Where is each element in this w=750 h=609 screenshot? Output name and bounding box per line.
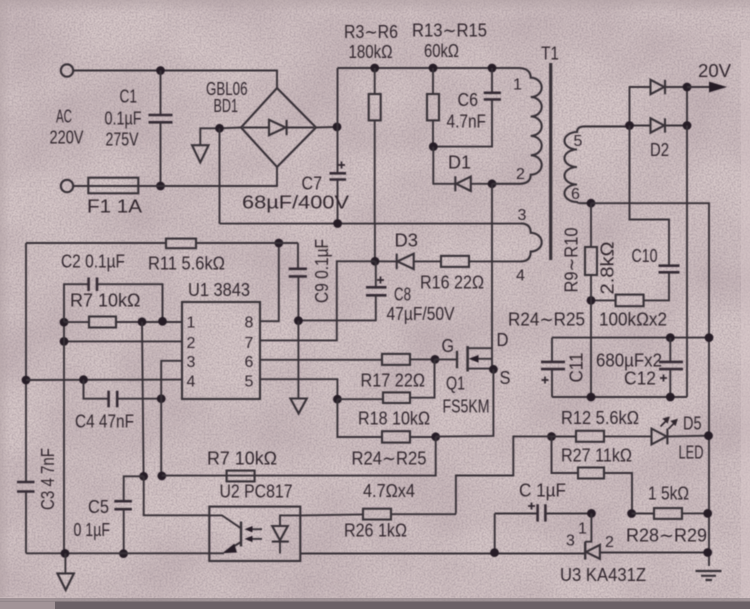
svg-text:G: G [442,336,455,356]
wire: bridge minus lead left [200,128,241,146]
svg-text:R12 5.6kΩ: R12 5.6kΩ [561,408,639,428]
node: comp node left [60,318,69,327]
svg-text:3: 3 [187,354,196,371]
resistor R24-R25 4.7Rx4 current sense [337,399,435,442]
svg-text:AC: AC [56,107,72,127]
capacitor C 1uF soft start [495,503,592,522]
svg-text:R28∼R29: R28∼R29 [626,526,707,546]
wire: primary return rail to aux winding pin3 [220,223,522,225]
svg-text:7: 7 [245,335,254,352]
svg-text:C3 4 7nF: C3 4 7nF [38,448,58,510]
node: R9-R10 on +rail [587,393,596,402]
node: feedback divider top [547,432,556,441]
wire: U1 pin3 riser down to sense line [161,361,182,476]
svg-text:4.7nF: 4.7nF [447,112,487,132]
capacitor C6 4.7nF snubber [433,68,501,147]
node: secondary pin6 [587,199,596,208]
resistor R7 10k comp [64,317,182,328]
svg-text:D: D [497,330,509,350]
node: R3-R6 top [370,64,379,73]
node: gnd line to right rail [705,333,714,342]
svg-text:D1: D1 [448,153,471,173]
ground: bottom left triangle [57,553,74,590]
svg-text:R24∼R25: R24∼R25 [352,449,427,469]
capacitor C9 0.1uF [289,243,307,321]
resistor R17 22R gate [382,354,435,365]
resistor R12 5.6k [552,431,652,442]
wire: Vref line pin8 riser [260,243,279,321]
wire: gnd stub to U1 ground arrow [297,321,299,399]
svg-text:4: 4 [187,374,196,391]
node: C7 top [333,123,342,132]
svg-text:60kΩ: 60kΩ [424,41,459,61]
diodes D2 output pair [630,80,688,133]
label: C8 value [387,285,455,325]
wire: bottom left rail [26,552,209,554]
node: R18 left / pin5 node [333,395,342,404]
node: C2 right on pin1 line [158,317,167,326]
svg-text:S: S [500,368,511,388]
node: C branch on opto line [490,548,499,557]
wire: VCC node left and down to U1 pin7 [260,261,375,340]
node: C4 stub on pin4 line [79,375,88,384]
node: R7 right / divider tap [138,317,147,326]
wire: snubber junction down to D1 [433,147,455,184]
node: LED on right rail [704,431,713,440]
node: R27 on ref line [627,509,636,518]
transformer T1 core [549,63,552,260]
svg-text:2: 2 [187,335,196,352]
capacitor C12 680uF [659,338,683,397]
svg-text:47µF/50V: 47µF/50V [387,304,455,324]
svg-text:C5: C5 [88,497,109,517]
wire: C branch down to opto line [494,514,496,553]
node: C5 on bottom rail [119,549,128,558]
capacitor C4 47nF [84,380,162,408]
ground: U1 gnd triangle [290,399,306,414]
svg-text:R9∼R10: R9∼R10 [562,228,582,293]
wire: drain-source vertical [491,184,493,369]
svg-text:T1: T1 [541,44,559,64]
node: ref node on C line [587,509,596,518]
svg-text:1: 1 [578,521,587,538]
mosfet Q1 FS5KM [457,346,492,372]
fuse F1 [88,178,138,194]
svg-text:F1 1A: F1 1A [87,197,142,217]
node: pin4 to left rail [22,376,31,385]
svg-text:R27 11kΩ: R27 11kΩ [561,446,632,466]
node: bridge minus [215,124,224,133]
node: C5 node on sense line [139,472,148,481]
wire: source down and left to sense node [436,369,494,436]
wire: U1 pin6 output to gate resistor [260,359,382,361]
node: C4 to pin3 riser [157,394,166,403]
wire: sense node down to CS line [162,437,436,476]
svg-text:680µFx2: 680µFx2 [596,351,662,371]
capacitor C10 with 100k feed [630,126,680,301]
svg-text:1 5kΩ: 1 5kΩ [648,484,689,504]
svg-text:R7 10kΩ: R7 10kΩ [70,291,141,311]
wire: 20V output arrow [687,82,727,93]
wire: bridge minus down to primary return [219,128,221,223]
svg-text:D3: D3 [395,231,419,251]
wire: U1 pin5 gnd to sense node [260,379,337,399]
svg-text:5: 5 [574,133,583,150]
svg-text:D5: D5 [683,414,702,434]
svg-text:U3 KA431Z: U3 KA431Z [560,565,646,585]
node: source node [489,365,498,374]
svg-text:68µF/400V: 68µF/400V [242,193,349,213]
svg-text:2: 2 [605,534,614,551]
svg-text:R11 5.6kΩ: R11 5.6kΩ [148,254,225,274]
svg-text:3: 3 [566,533,575,550]
wire: left rail from R11 down through C3 [25,243,27,482]
wire: U1 pin2 line [64,340,182,342]
svg-text:R17 22Ω: R17 22Ω [361,371,426,391]
svg-text:BD1: BD1 [214,96,239,116]
resistor R18 10k gate pulldown [337,359,434,403]
label: D5 LED [679,414,704,463]
optocoupler U2 PC817 [209,507,300,561]
label: R3-R6 180k [344,22,398,62]
svg-text:275V: 275V [106,130,139,150]
node: transformer pin2 / drain [488,179,497,188]
IC U1 UC3843 body [182,302,260,399]
wire: opto cathode long line to shunt [300,553,584,555]
node: C1 top junction [156,66,165,75]
resistor R24-R25 100kx2 [591,295,644,307]
svg-text:C7: C7 [302,174,323,194]
wire: opto collector feed from divider node [144,476,210,515]
label: GBL06 BD1 [206,79,248,116]
resistor R3-R6 180k startup [369,68,381,261]
wire: bridge plus to C7 column [316,126,338,129]
svg-text:U2 PC817: U2 PC817 [220,482,293,502]
wire: left feedback vertical [63,322,65,553]
node: pin2 left [60,337,69,346]
svg-text:0.1µF: 0.1µF [105,109,142,129]
node: C12 top [666,333,675,342]
svg-text:LED: LED [679,443,704,463]
svg-text:C10: C10 [632,246,658,266]
transformer T1 primary winding pins 1-2 [492,68,542,184]
resistor R13-R15 60k snubber [427,68,439,147]
wire: AC bottom line to bridge bottom vertex [74,167,277,186]
svg-text:FS5KM: FS5KM [443,397,490,417]
capacitor C1 [149,71,173,187]
node: C9/C8 ground node [294,316,303,325]
svg-text:R24∼R25: R24∼R25 [508,310,585,330]
svg-text:C6: C6 [458,90,479,110]
node: output top [683,83,692,92]
wire: divider vertical down to C5 node [142,322,144,477]
svg-text:2: 2 [516,166,525,183]
svg-text:4: 4 [516,268,525,285]
svg-text:1: 1 [187,315,196,332]
svg-text:R13∼R15: R13∼R15 [412,21,487,41]
label: Q1 FS5KM [443,374,490,417]
node: left gnd on bottom rail [61,549,70,558]
node: R11 to pin8 [274,239,283,248]
svg-text:C8: C8 [394,285,411,305]
svg-text:6: 6 [571,186,580,203]
node: shunt anode on right rail [703,548,712,557]
svg-text:R26 1kΩ: R26 1kΩ [344,521,407,541]
node: pin3 riser on sense line [157,472,166,481]
label: R13-R15 60k [412,21,487,62]
terminal: AC line input bottom [61,180,73,192]
svg-text:C12: C12 [624,369,656,389]
svg-text:R18 10kΩ: R18 10kΩ [358,409,430,429]
svg-text:1: 1 [513,77,522,94]
svg-text:C11: C11 [567,353,587,383]
diode D3 [375,254,414,270]
diode D1 [455,176,492,191]
wire: U1 pin4 line [26,379,182,381]
svg-text:C 1µF: C 1µF [519,481,566,501]
svg-text:D2: D2 [650,140,669,160]
wire: top HV rail [338,67,520,69]
label: R24-R25 100k [508,310,667,330]
capacitor C7 68uF/400V [330,68,347,224]
svg-text:5: 5 [245,374,254,391]
resistor R16 22R [414,256,469,267]
transformer T1 aux winding pins 3-4 [521,223,542,261]
resistor R11 5.6k with Vref line [26,239,298,249]
capacitor C2 0.1uF comp [64,278,163,323]
capacitor C8 47uF/50V [298,261,386,320]
node: C12 on +rail [666,393,675,402]
node: gate node [431,355,440,364]
svg-text:8: 8 [245,315,254,332]
svg-text:20V: 20V [698,61,731,81]
wire: fb zig from divider top to opto side [456,436,552,512]
bridge rectifier BD1 GBL06 [241,88,316,167]
capacitor C5 0.1uF [114,476,143,554]
ground: earth symbol bottom right [696,571,722,580]
svg-text:R3∼R6: R3∼R6 [344,22,398,42]
svg-text:180kΩ: 180kΩ [349,42,393,62]
node: snubber junction [429,142,438,151]
capacitor C3 4.7nF [17,482,35,553]
svg-text:C2 0.1µF: C2 0.1µF [61,252,125,272]
svg-text:R7 10kΩ: R7 10kΩ [207,449,277,469]
node: C7 bottom on return rail [333,219,342,228]
shunt regulator U3 KA431Z [585,513,708,559]
svg-text:4.7Ωx4: 4.7Ωx4 [363,481,415,501]
svg-text:100kΩx2: 100kΩx2 [599,310,667,330]
wire: +20V bottom rail of caps [552,396,687,398]
node: C6 top [488,64,497,73]
svg-text:3: 3 [518,207,527,224]
label: C7 value [242,174,349,213]
wire: AC top line to bridge [74,71,277,89]
svg-text:C9 0.1µF: C9 0.1µF [312,239,332,303]
svg-text:220V: 220V [50,128,84,148]
node: source sense node [431,432,440,441]
node: D2 anode bus [625,121,634,130]
svg-text:U1 3843: U1 3843 [188,280,250,300]
svg-text:0 1µF: 0 1µF [74,520,111,540]
ground: bridge negative arrow [192,145,209,162]
wire: aux pin4 lead to R16 [469,260,521,262]
svg-text:C1: C1 [120,87,138,107]
capacitor C11 680uF [541,338,565,397]
label: C5 value [74,497,111,540]
wire: output gnd line C11/C12 top [552,337,709,339]
resistor R26 1k opto feed [300,509,456,520]
resistor R27 11k [552,437,633,514]
wire: pin6 to right gnd rail [591,203,709,566]
svg-text:Q1: Q1 [446,374,465,394]
resistor R28-R29 1.5k [632,508,708,519]
node: R9-R10 bottom [587,296,596,305]
node: C1 bottom junction [156,182,165,191]
node: output lower diode [683,121,692,130]
transformer T1 secondary winding pins 5-6 [565,126,630,203]
node: R13-R15 top [429,64,438,73]
label: C6 value [447,90,487,132]
label: AC 220V [50,107,84,148]
resistor R7 10k CS filter [227,471,255,482]
label: C1 value [105,87,142,150]
terminal: AC line input top [61,64,73,76]
led D5 [652,418,709,445]
node: R28 on right rail [703,509,712,518]
wire: gate lead [435,358,456,360]
resistor R9-R10 2.8k [585,203,597,397]
svg-text:R16 22Ω: R16 22Ω [420,273,484,293]
svg-text:2.8kΩ: 2.8kΩ [598,242,618,295]
svg-text:C4 47nF: C4 47nF [75,412,134,432]
node: VCC aux node [371,257,380,266]
wire: +20V rail down right side [686,126,688,398]
svg-text:6: 6 [245,354,254,371]
